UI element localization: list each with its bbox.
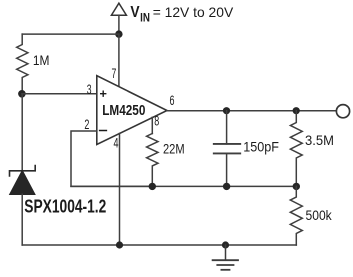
node junction 3.5M/500k [293,183,300,190]
pin 4 [114,134,119,150]
wire mid rail [71,185,296,187]
output terminal circle [336,105,349,118]
wire pin 3 input [22,93,97,95]
wire pin 7 supply [118,34,120,88]
node junction 22M bottom [149,183,156,190]
svg-text:22M: 22M [163,141,185,157]
node junction VIN/1M [115,30,122,37]
wire bottom rail [22,244,296,246]
pin 7 [112,65,117,81]
wire VIN stem [118,15,120,34]
resistor 22M [147,134,158,187]
wire pin 2 feedback [71,131,152,186]
svg-text:2: 2 [84,116,89,132]
node junction cap bottom [223,183,230,190]
svg-text:500k: 500k [306,207,333,223]
power symbol VIN [111,3,126,15]
label 22M [163,141,185,157]
wire pin 4 to ground rail [119,133,121,245]
label 3.5M [305,132,334,148]
node junction cap top [223,107,230,114]
svg-text:3: 3 [87,81,92,97]
capacitor C1 150pF [214,111,240,187]
diode D1 zener SPX1004-1.2 [10,94,36,245]
svg-text:= 12V to 20V: = 12V to 20V [153,4,234,20]
resistor 1M [17,34,28,94]
pin 2 [84,116,89,132]
label VIN = 12V to 20V [130,4,233,24]
resistor 500k [290,186,302,245]
svg-text:6: 6 [170,92,175,108]
ground [213,245,238,270]
node junction ground/bottom rail [222,241,229,248]
pin 8 [154,113,159,129]
label 150pF [243,139,279,155]
svg-text:4: 4 [114,134,119,150]
svg-text:IN: IN [140,10,150,24]
svg-text:LM4250: LM4250 [102,103,145,119]
svg-text:150pF: 150pF [243,139,279,155]
label LM4250 [102,103,145,119]
pin 6 [170,92,175,108]
svg-text:V: V [130,4,139,21]
node junction 3.5M top [293,107,300,114]
label 500k [306,207,333,223]
wire output rail pin 6 [167,110,336,112]
svg-text:8: 8 [154,113,159,129]
node junction pin4/bottom rail [116,241,123,248]
wire pin 8 [151,117,153,133]
svg-text:7: 7 [112,65,117,81]
node junction 1M/zener/pin3 [18,90,26,98]
resistor 3.5M [290,111,302,187]
label SPX1004-1.2 [24,196,106,216]
op-amp U1 LM4250 [97,76,167,145]
pin 3 [87,81,92,97]
svg-text:SPX1004-1.2: SPX1004-1.2 [24,196,106,216]
wire top rail to 1M [22,33,119,35]
svg-text:3.5M: 3.5M [305,132,334,148]
svg-text:1M: 1M [33,52,50,68]
label 1M [33,52,50,68]
